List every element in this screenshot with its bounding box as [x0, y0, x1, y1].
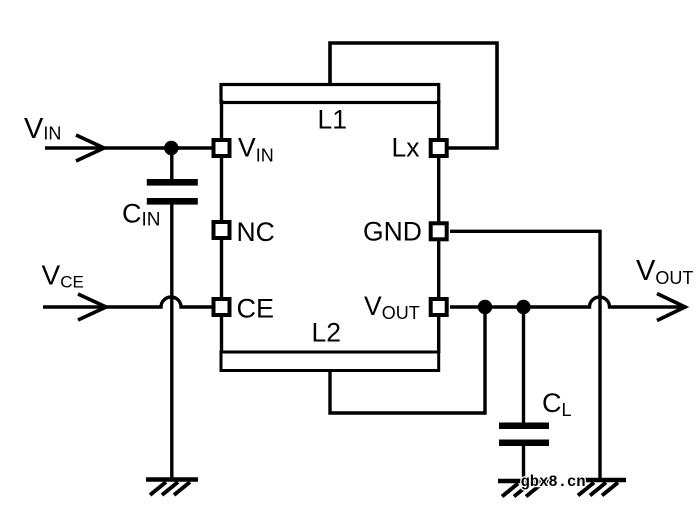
wire: V_IN arrowhead	[76, 135, 104, 161]
wire: V_CE arrowhead	[78, 294, 106, 320]
pin GND (square)	[431, 223, 447, 239]
capacitor C_IN plates	[147, 179, 198, 186]
svg-text:gbx8.cn: gbx8.cn	[521, 473, 586, 491]
wire: GND pin to right vertical rail	[450, 231, 600, 478]
svg-text:VIN: VIN	[24, 113, 61, 145]
svg-text:VOUT: VOUT	[364, 291, 420, 323]
wire: right side of IC (Lx/GND/V_OUT pin rail)	[437, 100, 440, 353]
wire: V_IN input line	[45, 146, 213, 149]
svg-text:CE: CE	[237, 294, 275, 324]
junction at V_OUT / C_L node	[516, 300, 530, 314]
wire: loop from L1 top to Lx pin	[330, 43, 497, 148]
pin V_OUT (square)	[431, 299, 447, 315]
wire: left side of IC (V_IN pin rail)	[220, 100, 223, 353]
wire: V_OUT pin to output with hop over GND rail	[450, 297, 686, 307]
svg-text:GND: GND	[363, 217, 422, 247]
ground (C_IN)	[146, 480, 198, 496]
ground (C_L)	[498, 481, 550, 497]
ground (GND rail)	[574, 480, 626, 496]
svg-text:VCE: VCE	[42, 260, 84, 292]
wire: L2 bottom to V_OUT node	[330, 307, 485, 413]
inductor L2 (bottom bar of module)	[221, 352, 439, 371]
pin NC (square)	[214, 222, 230, 238]
pin CE (square)	[214, 299, 230, 315]
wire: V_OUT arrowhead	[657, 294, 685, 321]
svg-text:CL: CL	[542, 388, 572, 420]
svg-text:Lx: Lx	[392, 133, 420, 163]
pin Lx (square)	[431, 140, 447, 156]
capacitor C_L lead (bottom) to ground	[522, 446, 525, 481]
svg-text:L1: L1	[318, 105, 347, 135]
capacitor C_L plates	[499, 423, 549, 430]
junction at V_OUT / L2 feedback node	[478, 300, 492, 314]
capacitor C_IN lead (top)	[170, 148, 173, 180]
svg-text:NC: NC	[237, 217, 275, 247]
svg-text:VOUT: VOUT	[636, 255, 693, 288]
pin V_IN (square)	[214, 140, 230, 156]
junction at V_IN / C_IN node	[164, 141, 178, 155]
capacitor C_L lead (top)	[522, 307, 525, 424]
inductor L1 (top bar of module)	[221, 85, 439, 103]
capacitor C_IN lead (bottom) to ground	[170, 204, 173, 479]
wire: V_CE input line with hop over C_IN ground rail	[43, 297, 213, 307]
svg-text:L2: L2	[312, 318, 341, 348]
svg-text:VIN: VIN	[238, 133, 274, 166]
